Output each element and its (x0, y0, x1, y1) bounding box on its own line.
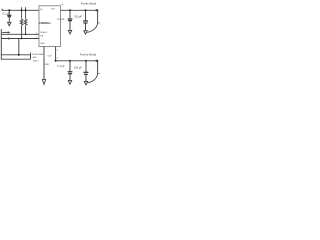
svg-text:EN: EN (40, 35, 43, 37)
svg-text:FLAG 4: FLAG 4 (40, 31, 48, 34)
wire line E (1, 58, 30, 60)
resistor R2 (24, 7, 27, 34)
svg-text:4: 4 (57, 49, 58, 51)
node load box top edge (98, 22, 100, 24)
svg-text:LM2936-L: LM2936-L (39, 21, 51, 25)
ground below C1 (8, 22, 11, 26)
capacitor C6 0.1uF bottom (68, 61, 73, 80)
capacitor C1 0.1uF (7, 10, 11, 22)
svg-text:Ferrite Bead: Ferrite Bead (80, 52, 97, 56)
node R2 tap on input rail (25, 9, 27, 11)
node C3 tap on output line (69, 9, 71, 11)
svg-text:TAB: TAB (39, 53, 43, 56)
wire load return curve (87, 23, 97, 33)
wire line D (1, 54, 30, 56)
wire load return curve bottom (88, 73, 98, 83)
svg-text:0.1 µF: 0.1 µF (2, 12, 10, 15)
svg-text:OUT: OUT (51, 9, 56, 11)
svg-text:7: 7 (36, 37, 37, 39)
wire top rail right (OUT) (61, 9, 98, 11)
node load box top edge bottom (98, 72, 100, 74)
ground below C5 (84, 81, 87, 85)
node C2 tap on output line (85, 9, 87, 11)
ground below C2 (84, 31, 87, 34)
wire GND down (43, 47, 45, 80)
wire left rail (0, 29, 2, 60)
svg-text:0.1 µF: 0.1 µF (57, 65, 65, 68)
node C1 tap on input rail (8, 9, 10, 11)
wire line C to IC (1, 38, 39, 40)
ground below C3 (68, 30, 71, 34)
wire top rail left (2, 9, 39, 11)
capacitor C3 0.1uF (68, 10, 73, 30)
svg-text:GND: GND (40, 43, 45, 45)
capacitor C2 100uF (83, 10, 88, 30)
svg-text:0.1 µF: 0.1 µF (57, 18, 65, 21)
wire connector tick (30, 53, 32, 60)
wire line B to IC (1, 33, 39, 35)
svg-text:Ferrite Bead: Ferrite Bead (81, 2, 97, 6)
arrow signal left (2, 31, 10, 33)
node C5 tap on output2 line (85, 60, 87, 62)
node R2 to line B (25, 34, 27, 36)
op-amp U1 LM2936 box (39, 6, 61, 47)
wire branch to line D (18, 39, 20, 55)
wire right corner down bottom (97, 61, 99, 73)
capacitor C5 100uF bottom (83, 61, 88, 81)
svg-text:GND: GND (32, 57, 37, 59)
node R1 to line C (21, 38, 23, 40)
wire right corner down (97, 10, 99, 22)
svg-text:100 µF: 100 µF (74, 16, 82, 19)
svg-text:IN: IN (40, 9, 43, 11)
svg-text:4: 4 (61, 2, 63, 6)
svg-text:GND 3: GND 3 (33, 61, 39, 63)
wire OUT2 from IC bottom (56, 47, 98, 61)
ferrite bead bottom (96, 60, 99, 62)
node input terminal tick (1, 9, 3, 11)
svg-text:100 µF: 100 µF (74, 66, 82, 69)
svg-text:GND: GND (45, 64, 50, 66)
resistor R1 (20, 7, 23, 38)
arrow on line C (8, 37, 11, 39)
node C6 tap on output2 line (69, 60, 71, 62)
svg-text:OUT: OUT (48, 55, 53, 57)
node OUT2 corner (55, 60, 57, 62)
ground below C6 (68, 80, 71, 84)
node branch to line D (18, 54, 20, 56)
node R1 tap on input rail (21, 9, 23, 11)
svg-text:4: 4 (57, 58, 58, 60)
svg-text:5: 5 (36, 33, 37, 35)
ferrite bead top (96, 9, 99, 11)
ground below GND pin (42, 80, 45, 85)
